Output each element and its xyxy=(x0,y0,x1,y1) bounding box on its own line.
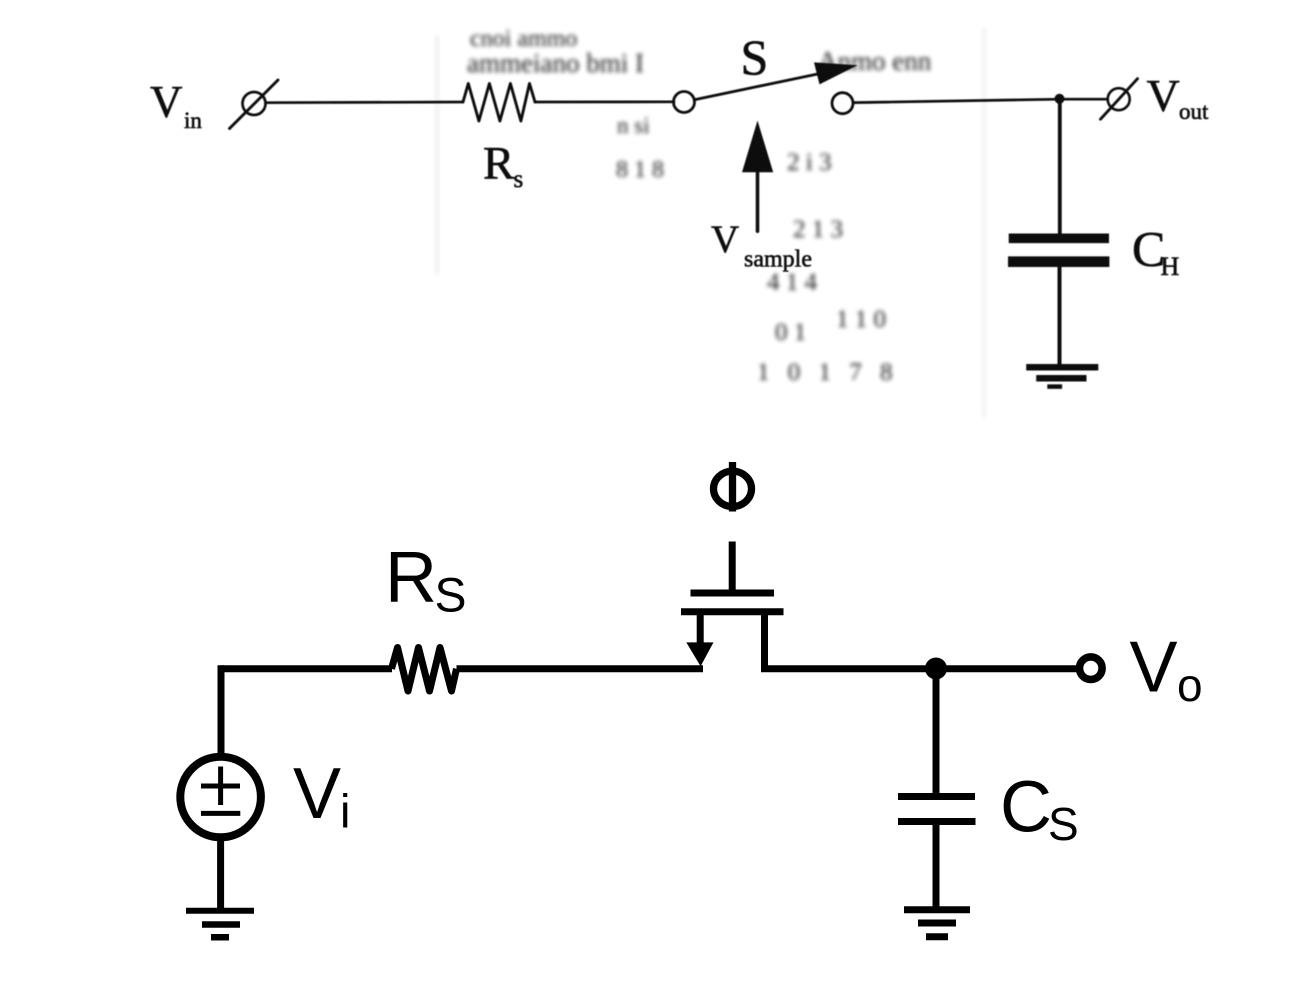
svg-text:1 0 1 7 8: 1 0 1 7 8 xyxy=(757,359,899,386)
svg-text:n si: n si xyxy=(617,113,650,138)
Vsample arrow head xyxy=(742,121,773,173)
wire node down to CS xyxy=(933,668,940,794)
svg-text:2 i 3: 2 i 3 xyxy=(787,149,831,176)
phi clock label (drawn) xyxy=(714,471,752,506)
svg-text:4 1 4: 4 1 4 xyxy=(767,269,818,296)
svg-text:8 1 8: 8 1 8 xyxy=(616,157,664,183)
source Vi circle xyxy=(180,757,261,838)
svg-text:V: V xyxy=(1147,70,1180,121)
svg-text:S: S xyxy=(741,29,769,85)
svg-text:H: H xyxy=(1161,252,1180,281)
switch S lever xyxy=(696,71,833,100)
switch S right contact xyxy=(832,93,853,114)
switch S left contact xyxy=(674,92,695,113)
svg-text:R: R xyxy=(385,538,437,618)
svg-text:V: V xyxy=(1130,628,1178,708)
svg-text:1 1 0: 1 1 0 xyxy=(836,306,886,333)
svg-text:V: V xyxy=(150,77,183,127)
wire CH to ground xyxy=(1058,267,1062,365)
svg-text:ammeiano bmi I: ammeiano bmi I xyxy=(467,48,644,78)
MOSFET gate bar xyxy=(691,590,775,597)
MOSFET drain stub xyxy=(761,612,768,669)
svg-text:V: V xyxy=(711,218,739,261)
svg-text:C: C xyxy=(1000,768,1052,848)
capacitor CS top plate xyxy=(898,793,975,800)
svg-text:S: S xyxy=(1048,798,1079,850)
wire Vin to Rs xyxy=(266,101,463,104)
MOSFET gate stem xyxy=(729,542,736,594)
ground (top figure) xyxy=(1026,364,1098,371)
ground (Vi) xyxy=(186,908,254,914)
wire node to Vout xyxy=(1059,98,1106,101)
wire node down to CH xyxy=(1058,99,1062,234)
svg-text:2 1 3: 2 1 3 xyxy=(793,216,843,243)
svg-text:in: in xyxy=(184,108,202,133)
output terminal Vo open circle xyxy=(1080,657,1103,680)
switch S arrowhead xyxy=(814,62,858,84)
Vsample arrow stem xyxy=(756,171,760,231)
capacitor CS bottom plate xyxy=(898,818,976,825)
wire CS to ground xyxy=(933,822,940,911)
node junction dot xyxy=(1055,94,1065,104)
svg-text:0 1: 0 1 xyxy=(775,319,806,346)
ghost vertical rule left xyxy=(436,35,438,275)
svg-text:s: s xyxy=(514,166,524,193)
node junction dot xyxy=(925,658,947,680)
svg-text:R: R xyxy=(483,138,515,190)
wire switch to node xyxy=(854,99,1060,102)
capacitor CH top plate xyxy=(1009,234,1109,244)
terminal Vout slashed circle xyxy=(1108,88,1130,110)
svg-text:i: i xyxy=(340,785,350,838)
wire Vi corner to MOSFET xyxy=(221,665,392,672)
svg-text:V: V xyxy=(293,754,341,834)
capacitor CH bottom plate xyxy=(1008,256,1109,267)
resistor RS zigzag xyxy=(392,648,457,692)
bleed-through ghost text from reverse page xyxy=(437,26,984,418)
wire Vi to ground xyxy=(217,837,224,910)
wire MOSFET to node to Vo xyxy=(761,665,1076,672)
ground (CS) xyxy=(904,906,970,913)
svg-text:S: S xyxy=(435,570,467,623)
plusminus inside Vi xyxy=(201,784,240,789)
svg-text:sample: sample xyxy=(744,247,812,273)
MOSFET source stub with arrow xyxy=(697,612,704,646)
wire Rs to switch xyxy=(535,100,674,103)
svg-text:out: out xyxy=(1179,99,1209,124)
terminal Vin slashed circle xyxy=(243,92,266,115)
svg-text:o: o xyxy=(1177,659,1203,711)
resistor Rs zigzag xyxy=(463,84,535,122)
MOSFET channel bar xyxy=(681,608,784,615)
ghost vertical rule right xyxy=(983,28,985,418)
